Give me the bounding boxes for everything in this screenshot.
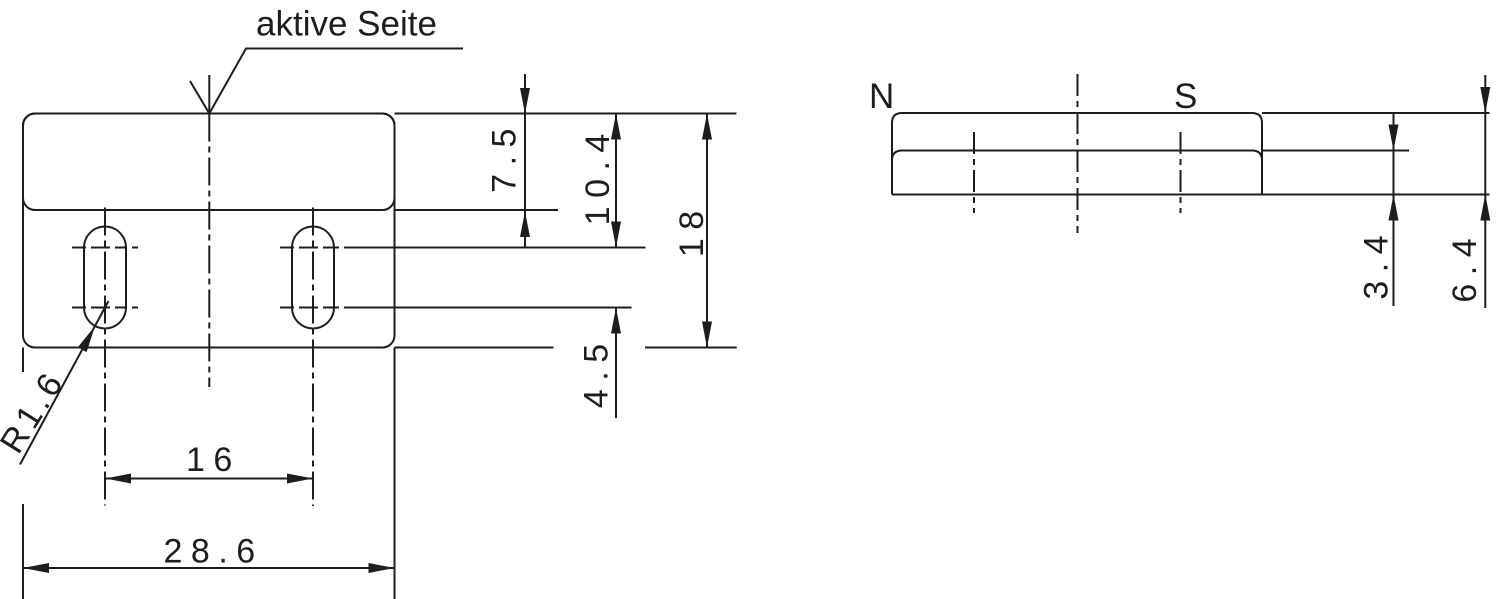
part body outline (front view) (23, 114, 395, 348)
arrow 6.4 bottom (up) (1480, 195, 1490, 221)
svg-text:10.4: 10.4 (579, 125, 617, 225)
svg-text:3.4: 3.4 (1358, 227, 1396, 300)
arrow 16 left (105, 474, 131, 484)
side view centerline right (1180, 132, 1182, 213)
side view step extension (1262, 150, 1409, 152)
side view centerline middle (1077, 74, 1079, 233)
dim 10.4 line (615, 114, 617, 248)
slot left lower center mark (72, 307, 138, 309)
arrow R1.6 (78, 326, 95, 352)
dim 18 line (706, 114, 708, 348)
dim 16 line (105, 478, 313, 480)
svg-text:16: 16 (186, 441, 241, 479)
slot left (84, 227, 126, 329)
svg-text:6.4: 6.4 (1446, 230, 1484, 303)
dim 7.5 line (524, 74, 526, 248)
active top section (front view) (23, 114, 395, 211)
svg-text:4.5: 4.5 (578, 335, 616, 408)
slot right (292, 227, 334, 329)
7.5 extension line (395, 209, 559, 211)
arrow 3.4 bottom (up) (1389, 195, 1399, 221)
dim 4.5 line (615, 308, 617, 419)
part vertical centerline (208, 114, 210, 388)
left extension line 28.6 lower part (22, 504, 24, 599)
arrow 3.4 top (down) (1389, 125, 1399, 151)
top edge extension line (395, 113, 737, 115)
side view top extension (1262, 112, 1490, 114)
side view bottom edge + extension (892, 194, 1490, 196)
arrow 10.4 bottom (down) (611, 222, 621, 248)
arrow 10.4 top (up) (611, 114, 621, 140)
leader aktive Seite (209, 49, 463, 114)
bottom extension line for 18 (645, 347, 737, 349)
svg-text:28.6: 28.6 (164, 533, 264, 571)
dim 6.4 line (1484, 75, 1486, 308)
left extension line 28.6 upper part (22, 348, 24, 373)
arrow 18 top (up) (702, 114, 712, 140)
dim 28.6 line (23, 567, 395, 569)
arrow 18 bottom (down) (702, 322, 712, 348)
arrow 4.5 (up) (611, 308, 621, 334)
dim 3.4 line (1393, 113, 1395, 306)
svg-text:N: N (869, 77, 894, 116)
arrow 28.6 left (23, 563, 49, 573)
arrow 16 right (287, 474, 313, 484)
svg-text:R1.6: R1.6 (0, 363, 73, 460)
side view step line (892, 151, 1262, 195)
centerline left slot (104, 208, 106, 506)
leader R1.6 (20, 301, 109, 465)
arrow 6.4 top (down) (1480, 87, 1490, 113)
centerline solid top above part (208, 75, 210, 114)
side view body (892, 113, 1262, 195)
svg-text:18: 18 (673, 202, 711, 257)
svg-text:7.5: 7.5 (486, 120, 524, 193)
arrow 28.6 right (369, 563, 395, 573)
svg-text:S: S (1174, 77, 1197, 116)
svg-text:aktive Seite: aktive Seite (256, 5, 437, 44)
slot right upper center mark / extension line 10.4 (280, 247, 646, 249)
arrow 7.5 bottom (up) (520, 212, 530, 238)
slot right lower center mark / extension line 4.5 (280, 307, 632, 309)
side view centerline left (973, 132, 975, 213)
arrow 7.5 top (down) (520, 88, 530, 114)
right extension line 28.6 (394, 348, 396, 599)
leader arrow left stroke (190, 81, 209, 114)
slot left upper center mark (72, 247, 138, 249)
centerline right slot (312, 208, 314, 507)
bottom edge extension segment (395, 347, 554, 349)
